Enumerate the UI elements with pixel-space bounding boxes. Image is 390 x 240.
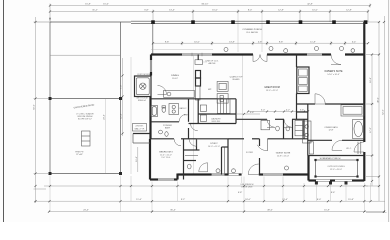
svg-text:SCREENED PORCH: SCREENED PORCH	[320, 158, 341, 160]
bottom dimension row 3	[49, 210, 385, 212]
spa room bump-out	[135, 73, 152, 97]
patio grill detail	[82, 131, 91, 146]
porch slab edge	[34, 21, 367, 23]
svg-text:50'-6": 50'-6"	[34, 104, 36, 110]
patio posts	[49, 97, 123, 175]
top dimension row 2	[50, 10, 368, 23]
svg-text:3'-0": 3'-0"	[184, 115, 189, 117]
mud bench wall	[198, 113, 236, 115]
tick marks left column	[34, 21, 36, 202]
tick marks hall dim row	[247, 110, 309, 112]
wic label	[346, 148, 352, 150]
svg-text:CLG. ABOVE: CLG. ABOVE	[246, 31, 259, 34]
front door arc	[248, 164, 259, 175]
svg-text:15'-8": 15'-8"	[324, 210, 330, 212]
screened porch inner screen	[314, 159, 358, 178]
svg-text:BATH: BATH	[165, 127, 171, 130]
svg-text:9'-0" CLG.: 9'-0" CLG.	[161, 157, 171, 159]
svg-text:5'-8": 5'-8"	[250, 112, 255, 114]
svg-text:19'-0" x 22'-0": 19'-0" x 22'-0"	[266, 90, 279, 92]
exterior right wall	[363, 22, 365, 181]
bedroom3 label	[159, 152, 173, 159]
svg-text:11'-6": 11'-6"	[136, 199, 142, 201]
tick marks top rows	[49, 4, 371, 12]
top extension lines	[238, 14, 262, 53]
bath2 bottom wall	[151, 114, 187, 122]
svg-text:FOYER: FOYER	[246, 152, 253, 154]
wic wall vertical	[307, 104, 309, 156]
svg-text:9'-8": 9'-8"	[279, 41, 284, 43]
linen closet divider	[297, 111, 308, 113]
powder bottom wall	[150, 139, 197, 146]
svg-text:8'-0": 8'-0"	[248, 10, 253, 12]
bath2 top wall	[151, 98, 237, 100]
interior dim segment foyer top	[236, 112, 260, 115]
svg-text:11'x12': 11'x12'	[172, 78, 179, 80]
svg-text:KIT.: KIT.	[208, 89, 212, 91]
tick marks bottom row1	[49, 185, 366, 187]
svg-text:SPA 6'x6': SPA 6'x6'	[138, 99, 147, 102]
screened porch label	[320, 158, 345, 171]
owner suite bottom wall	[297, 103, 365, 105]
svg-text:40'-6": 40'-6"	[377, 97, 379, 103]
svg-text:10'-0" x 11'-0": 10'-0" x 11'-0"	[208, 146, 220, 148]
closet walls	[184, 139, 200, 161]
svg-text:6'-4": 6'-4"	[352, 41, 357, 43]
bath2 vanity	[169, 104, 179, 115]
top wall glass door	[182, 53, 212, 56]
guest suite door arc	[257, 139, 267, 151]
svg-text:BEDROOM 3: BEDROOM 3	[159, 152, 173, 154]
svg-text:3'-6": 3'-6"	[300, 109, 305, 111]
kitchen island lower	[217, 94, 228, 104]
tick marks right columns	[371, 21, 385, 213]
pantry shelves	[217, 99, 230, 114]
front door note leader	[241, 177, 254, 189]
porch roof edge line	[151, 48, 213, 50]
svg-text:6'-8": 6'-8"	[144, 10, 149, 12]
dining door arc	[158, 86, 167, 95]
owner bath label	[324, 126, 338, 132]
bath2 label	[180, 107, 188, 110]
powder room label	[163, 125, 173, 130]
svg-text:WALL TYP.: WALL TYP.	[134, 128, 144, 131]
svg-text:DINING: DINING	[171, 75, 179, 77]
svg-text:15'-8": 15'-8"	[348, 199, 354, 201]
svg-text:23'-4": 23'-4"	[104, 114, 106, 120]
svg-text:15'-8": 15'-8"	[85, 4, 91, 6]
svg-text:8'-6": 8'-6"	[331, 192, 336, 194]
mud right wall	[235, 99, 237, 124]
svg-text:GUEST SUITE: GUEST SUITE	[276, 153, 291, 155]
buffet counter	[164, 91, 195, 98]
svg-text:BATH 2: BATH 2	[180, 107, 188, 110]
right dimension column C	[366, 16, 387, 213]
owner built-in	[297, 67, 309, 94]
tag circle porch center	[284, 49, 288, 53]
study top wall	[189, 139, 228, 147]
svg-text:18'-0": 18'-0"	[245, 199, 251, 201]
svg-text:STUDY: STUDY	[210, 143, 218, 145]
kitchen label	[208, 89, 212, 91]
interior extension line A	[193, 56, 195, 175]
foyer walls	[228, 139, 260, 175]
svg-text:12'-8": 12'-8"	[278, 10, 284, 12]
bedroom3 dim line	[136, 147, 138, 172]
top wall window right	[307, 54, 322, 56]
owner vanity	[303, 121, 312, 143]
svg-text:8'-0": 8'-0"	[317, 199, 322, 201]
hall tiny dim text	[184, 115, 189, 117]
foyer label	[246, 152, 253, 154]
tick marks bottom row3	[48, 211, 385, 213]
svg-text:16'-4": 16'-4"	[370, 77, 372, 83]
wic wall	[308, 140, 365, 150]
tick marks bottom row2	[48, 200, 371, 202]
mud door arc	[191, 124, 198, 131]
svg-text:14'-0" x 16'-0": 14'-0" x 16'-0"	[327, 74, 340, 76]
svg-text:11'-8": 11'-8"	[310, 41, 316, 43]
bottom dimension row 2	[34, 199, 385, 201]
svg-text:7'-0": 7'-0"	[121, 85, 123, 90]
hall bottom wall	[236, 119, 308, 127]
spa label	[136, 98, 148, 102]
top dimension row 1	[49, 4, 370, 23]
owner suite door arc	[315, 94, 325, 104]
keynote box	[133, 124, 147, 132]
svg-text:15'-6": 15'-6"	[103, 4, 109, 6]
svg-text:9'-2": 9'-2"	[181, 199, 186, 201]
interior dim row hall	[248, 109, 308, 111]
svg-text:13'-4": 13'-4"	[169, 10, 175, 12]
opening tag circles top	[224, 47, 355, 53]
svg-text:MUD RM.: MUD RM.	[212, 121, 221, 123]
right dimension column A	[366, 54, 374, 186]
exterior bottom wall main	[178, 174, 309, 176]
guest suite top wall	[268, 138, 308, 140]
bath3 fixtures	[261, 120, 303, 136]
exterior top wall	[151, 53, 364, 55]
back double door arcs	[253, 55, 267, 62]
bedrooms divider wall	[184, 99, 189, 180]
exterior bottom wall left section	[150, 174, 178, 181]
great room right wall	[296, 55, 298, 120]
svg-text:10'-0": 10'-0"	[312, 10, 318, 12]
svg-text:2X6 EXT.: 2X6 EXT.	[135, 126, 144, 128]
svg-text:49'-6": 49'-6"	[267, 210, 273, 212]
kitchen cabinet column	[196, 71, 201, 101]
svg-text:W.I.C.: W.I.C.	[346, 148, 352, 150]
porch west edge line	[152, 24, 154, 55]
opening tag circles bottom	[216, 166, 289, 173]
guest suite label	[276, 153, 291, 158]
svg-text:15'-0": 15'-0"	[212, 10, 218, 12]
svg-text:4'-2": 4'-2"	[286, 109, 291, 111]
svg-text:35'-4": 35'-4"	[170, 210, 176, 212]
laundry label	[211, 118, 221, 123]
porch pilasters	[315, 182, 348, 185]
left wall planter	[133, 134, 150, 144]
owner tub	[353, 120, 365, 139]
owner suite back door arc	[331, 55, 341, 65]
owner shower	[341, 105, 364, 116]
svg-text:4'-8": 4'-8"	[258, 41, 263, 43]
study closet	[222, 147, 229, 175]
svg-text:12'-0" x 20'-0": 12'-0" x 20'-0"	[330, 169, 343, 171]
patio slab outline	[50, 22, 131, 174]
svg-text:GREAT ROOM: GREAT ROOM	[264, 86, 280, 89]
owner suite label	[324, 71, 343, 76]
svg-text:12'-4": 12'-4"	[121, 113, 123, 119]
svg-text:ISLAND: ISLAND	[232, 78, 240, 81]
exterior left wall	[150, 55, 152, 180]
tick marks porch dim row	[152, 42, 369, 44]
left dimension column	[34, 17, 53, 203]
svg-text:OWNER'S SUITE: OWNER'S SUITE	[324, 71, 343, 73]
grill label	[75, 151, 84, 155]
svg-text:9'-8": 9'-8"	[165, 41, 170, 43]
wic shelves	[309, 142, 361, 154]
svg-text:17'-0": 17'-0"	[370, 127, 372, 133]
kitchen wall	[197, 55, 199, 61]
mud wall vertical	[197, 99, 199, 124]
svg-text:12'-8": 12'-8"	[346, 10, 352, 12]
right dimension column B	[366, 22, 380, 201]
svg-text:52'-0": 52'-0"	[382, 109, 384, 115]
interior extension line B	[242, 56, 244, 175]
svg-text:12'x9': 12'x9'	[328, 129, 334, 131]
svg-text:5'-0": 5'-0"	[261, 109, 266, 111]
svg-text:84'-10": 84'-10"	[202, 4, 209, 6]
bed3 bath fixtures	[188, 163, 208, 172]
kitchen island note	[230, 76, 243, 81]
svg-text:23'-4": 23'-4"	[83, 210, 89, 212]
svg-text:ABOVE: ABOVE	[209, 62, 217, 65]
svg-text:13'-8": 13'-8"	[229, 41, 235, 43]
svg-text:31'-2": 31'-2"	[92, 10, 98, 12]
svg-text:10'-0": 10'-0"	[194, 41, 200, 43]
study right wall	[227, 139, 229, 175]
patio eave line	[130, 57, 132, 174]
sheet left border	[3, 0, 5, 222]
bath3 walls	[284, 119, 305, 139]
sheet right border	[388, 0, 390, 222]
interior left dim column	[121, 58, 124, 136]
kitchen ceiling note	[195, 60, 219, 65]
svg-text:CUSTOM SPA: CUSTOM SPA	[137, 73, 151, 76]
dining label	[171, 75, 179, 80]
patio slanted label	[73, 104, 94, 110]
svg-text:22"x48": 22"x48"	[76, 154, 83, 156]
svg-text:OWNER BATH: OWNER BATH	[324, 126, 338, 129]
powder fixtures	[159, 130, 169, 136]
patio interior dim line	[104, 99, 106, 173]
study label	[208, 143, 220, 148]
screened porch	[309, 156, 365, 182]
bath2 tub	[151, 106, 158, 117]
svg-text:6'-8": 6'-8"	[238, 192, 243, 194]
svg-text:COVERED PORCH: COVERED PORCH	[242, 29, 262, 31]
bottom dimension row 1	[44, 186, 368, 194]
porch posts	[151, 20, 367, 24]
great room label	[264, 86, 280, 92]
svg-text:12'-8" x 13'-0": 12'-8" x 13'-0"	[277, 155, 290, 157]
porch depth dimension row	[153, 41, 368, 45]
porch side door arc	[354, 142, 364, 152]
bath2 toilet	[162, 106, 166, 113]
washer dryer	[200, 105, 206, 121]
covered porch label	[242, 29, 262, 34]
svg-text:42'-8": 42'-8"	[307, 4, 313, 6]
svg-text:11'-4": 11'-4"	[136, 156, 138, 162]
bottom extension lines	[50, 176, 371, 213]
kitchen island upper	[217, 82, 228, 92]
patio slab note	[76, 113, 94, 121]
svg-text:SLOPE 1/8":12": SLOPE 1/8":12"	[78, 119, 92, 121]
hall top wall	[189, 123, 237, 125]
